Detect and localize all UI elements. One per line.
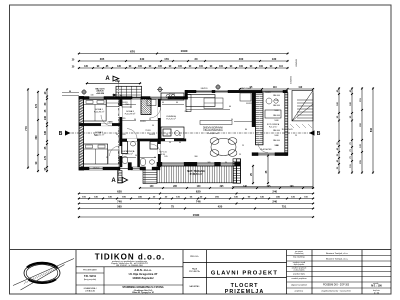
side yard boundary: [312, 93, 314, 189]
svg-text:10290 Zaprešić: 10290 Zaprešić: [132, 276, 154, 280]
side steps up to terrace (west): [143, 170, 157, 184]
logo thick bottom arc: [29, 279, 57, 283]
vertical dimension chain: [252, 165, 254, 185]
svg-text:50/80: 50/80: [274, 100, 278, 102]
svg-text:420: 420: [218, 205, 223, 209]
svg-text:90: 90: [231, 119, 233, 121]
svg-text:240: 240: [115, 79, 120, 83]
vertical dimension chain: [338, 87, 340, 173]
svg-text:25: 25: [295, 135, 297, 137]
svg-text:LOKACIJA:: LOKACIJA:: [85, 289, 96, 292]
middle column rows: [183, 262, 287, 264]
logo thick top arc: [27, 263, 58, 268]
svg-text:75: 75: [171, 205, 174, 209]
title block top line: [10, 249, 391, 251]
svg-text:dijela projekta: dijela projekta: [294, 263, 304, 266]
vertical dimension chain: [361, 87, 363, 173]
svg-text:20: 20: [195, 57, 198, 61]
svg-text:90/205: 90/205: [149, 134, 155, 136]
short interior dim segments: [122, 105, 252, 158]
door gap: [120, 106, 123, 117]
interior wall: bedrooms | hall: [120, 99, 123, 167]
svg-text:P=7,25 m²: P=7,25 m²: [166, 118, 176, 121]
wall living/utility: [252, 93, 255, 127]
svg-text:Ulica M. Tympy br. VI: Ulica M. Tympy br. VI: [132, 292, 154, 294]
svg-text:170: 170: [44, 155, 47, 160]
svg-text:P=28,50 m²: P=28,50 m²: [190, 172, 203, 176]
svg-text:290: 290: [107, 121, 110, 123]
bath fixtures left: [122, 142, 136, 164]
svg-text:90: 90: [169, 142, 171, 144]
svg-text:620: 620: [196, 190, 201, 194]
svg-text:20: 20: [69, 91, 71, 93]
column mark: [215, 84, 221, 90]
entrance arrow: [113, 94, 117, 97]
svg-text:670: 670: [130, 49, 135, 53]
vertical dimension chain: [267, 154, 269, 184]
svg-text:50/80: 50/80: [274, 120, 278, 122]
svg-text:751: 751: [282, 205, 287, 209]
svg-text:PRIZEMLJA: PRIZEMLJA: [225, 289, 265, 295]
svg-text:80/205: 80/205: [140, 121, 146, 123]
left exterior wall (hatched): [79, 97, 84, 171]
kitchen south wall: [158, 139, 186, 141]
svg-text:P=5,12 m²: P=5,12 m²: [269, 125, 278, 128]
svg-text:P=11,96 m²: P=11,96 m²: [94, 111, 105, 114]
svg-text:40: 40: [112, 95, 114, 97]
bottom wall stub at bath: [152, 167, 160, 170]
vertical dimension chain: [24, 88, 29, 169]
dimension chain: [78, 60, 289, 62]
stair walk line: [258, 96, 260, 140]
svg-text:(broj projekta): (broj projekta): [84, 278, 97, 281]
svg-text:60: 60: [162, 102, 164, 104]
svg-text:4 / 44: 4 / 44: [374, 292, 380, 294]
svg-text:55: 55: [106, 157, 108, 159]
svg-text:205: 205: [123, 118, 126, 120]
terrace hatch: [157, 166, 237, 183]
svg-text:190/210: 190/210: [291, 75, 293, 83]
bottom exterior wall left block: [79, 167, 120, 170]
utility room boiler circles: [265, 98, 281, 118]
window in wall: [132, 97, 141, 100]
svg-text:80: 80: [245, 129, 247, 131]
window in wall: [89, 167, 103, 170]
coffee table: [204, 98, 223, 109]
svg-text:PROJEKTANT:: PROJEKTANT:: [83, 269, 97, 272]
bed bedroom1: [84, 100, 107, 122]
svg-text:746: 746: [196, 200, 201, 204]
svg-text:25: 25: [242, 145, 244, 147]
bottom wall pier right: [141, 167, 146, 170]
dimension chain: [78, 205, 314, 210]
svg-text:240/120: 240/120: [201, 88, 208, 90]
bottom wall window segment 2: [132, 167, 146, 170]
dimension chain: [78, 200, 314, 205]
svg-text:PROJEKTA:: PROJEKTA:: [189, 270, 200, 273]
svg-text:840: 840: [370, 127, 373, 132]
door pier at entrance: [128, 163, 132, 171]
south wall band with pillars: [157, 162, 240, 166]
door swing arcs: [101, 107, 161, 156]
svg-text:suradnik, projektirao: suradnik, projektirao: [291, 277, 306, 280]
svg-text:SOBA 1: SOBA 1: [95, 108, 104, 111]
window in wall: [196, 90, 212, 93]
dimension chain: [86, 82, 141, 84]
svg-text:30: 30: [116, 134, 118, 136]
svg-text:15: 15: [130, 107, 132, 109]
interior wall hall | bath: [120, 139, 161, 141]
terrace garden steps: [233, 159, 241, 183]
dining table: [210, 138, 237, 157]
dimension chain: [78, 213, 314, 218]
svg-text:90: 90: [135, 155, 137, 157]
svg-text:60: 60: [176, 102, 178, 104]
bed bedroom2: [84, 144, 108, 164]
svg-text:105: 105: [164, 156, 167, 158]
narrow outdoor steps at section line: [118, 171, 122, 184]
svg-text:RAD 600: RAD 600: [273, 129, 280, 132]
svg-text:360: 360: [35, 135, 38, 140]
sideboard: [200, 121, 232, 125]
svg-text:130: 130: [91, 95, 94, 97]
vertical dimension chain: [372, 87, 374, 173]
right exterior wall (hatched ladder): [285, 93, 288, 156]
svg-text:RAD 600: RAD 600: [273, 114, 280, 117]
svg-text:620: 620: [117, 190, 122, 194]
logo hatch band between diagonals: [24, 267, 57, 284]
bath divider wall: [138, 141, 140, 167]
svg-text:KUHINJA: KUHINJA: [166, 115, 176, 118]
svg-text:DNEVNI BORAVAK: DNEVNI BORAVAK: [203, 127, 224, 130]
svg-text:RAD 600: RAD 600: [273, 139, 280, 142]
svg-text:565: 565: [117, 205, 122, 209]
company logo ellipse: [24, 263, 60, 283]
svg-text:60: 60: [229, 106, 231, 108]
svg-text:1090: 1090: [181, 49, 188, 53]
svg-text:50/80: 50/80: [274, 135, 278, 137]
dimension chain: [78, 67, 289, 69]
dimension chain: [78, 198, 314, 200]
svg-text:KUPAONICA: KUPAONICA: [122, 150, 135, 153]
svg-text:240: 240: [272, 190, 277, 194]
svg-text:205: 205: [122, 134, 125, 136]
svg-text:Zagrebačka banka · travanj 201: Zagrebačka banka · travanj 2011: [321, 290, 351, 293]
svg-text:projektant dijela: projektant dijela: [293, 272, 305, 275]
svg-text:75/205: 75/205: [145, 130, 151, 132]
svg-text:80/205: 80/205: [246, 103, 252, 105]
canopy grid hatch: [116, 86, 142, 97]
svg-text:P=10,98 m²: P=10,98 m²: [125, 113, 136, 116]
svg-text:50/80: 50/80: [274, 110, 278, 112]
svg-text:305: 305: [100, 57, 105, 61]
svg-text:190: 190: [276, 145, 279, 147]
svg-text:110: 110: [273, 86, 278, 89]
door arc utility: [258, 143, 268, 153]
dimension chain: [139, 185, 314, 189]
south wall of utility room with terrace door: [252, 153, 288, 156]
svg-text:za dio projekta: za dio projekta: [294, 268, 305, 271]
dashed yard hatch: [290, 124, 312, 128]
svg-text:120: 120: [208, 162, 211, 164]
svg-text:75: 75: [166, 134, 168, 136]
wardrobe bedroom1: [107, 100, 120, 107]
svg-text:220/240: 220/240: [296, 58, 298, 66]
cupboard right of living: [240, 93, 251, 101]
bath fixtures right: [140, 142, 157, 166]
svg-text:60: 60: [179, 142, 181, 144]
svg-text:80: 80: [225, 162, 227, 164]
vertical dimension chain: [46, 88, 48, 172]
svg-text:130: 130: [272, 57, 277, 61]
vertical dimension chain: [351, 87, 353, 173]
window in wall: [150, 97, 168, 100]
svg-text:90/205: 90/205: [122, 102, 128, 104]
svg-text:SOBA 2: SOBA 2: [95, 131, 104, 134]
svg-text:P=4,95 m²: P=4,95 m²: [123, 153, 133, 156]
section line B-B: [66, 132, 311, 134]
logo diagonal line 2: [21, 265, 65, 291]
svg-text:M 1 : 100: M 1 : 100: [371, 285, 382, 288]
svg-text:A: A: [111, 178, 116, 184]
svg-text:360: 360: [194, 156, 197, 158]
svg-text:400: 400: [239, 57, 244, 61]
svg-text:broj ovlaštenja: broj ovlaštenja: [293, 255, 305, 258]
window in wall: [89, 97, 104, 100]
dimension chain: [239, 86, 314, 90]
window in wall: [258, 153, 275, 156]
svg-text:P=10,11 m²: P=10,11 m²: [94, 134, 105, 137]
top exterior wall (left block): [79, 97, 188, 100]
svg-text:770: 770: [24, 126, 28, 131]
svg-text:RAD 600: RAD 600: [273, 94, 280, 97]
column mark: [157, 87, 163, 93]
svg-text:Branimir Tomljak, d.i.a.: Branimir Tomljak, d.i.a.: [326, 252, 348, 255]
logo diagonal line 1: [13, 259, 74, 286]
right detail rows: [287, 255, 392, 257]
entrance door line: [120, 168, 128, 170]
section line A-A: [117, 81, 119, 183]
svg-text:240/120: 240/120: [93, 168, 100, 170]
svg-text:200: 200: [185, 111, 188, 113]
sofa: [186, 95, 215, 112]
svg-text:340: 340: [140, 57, 145, 61]
svg-text:I BLAGOVAONICA: I BLAGOVAONICA: [203, 129, 223, 132]
svg-text:90: 90: [152, 125, 154, 127]
svg-text:A: A: [105, 76, 110, 82]
wardrobe bedroom2: [108, 150, 119, 164]
svg-text:110: 110: [282, 129, 285, 131]
wall thickness ticks outside left top: [62, 92, 79, 94]
svg-text:25: 25: [239, 154, 241, 156]
vertical dimension chain: [35, 91, 39, 172]
svg-text:POSEBNI DIO - ZOP 305: POSEBNI DIO - ZOP 305: [323, 285, 350, 287]
svg-text:odgovorni projektant: odgovorni projektant: [291, 283, 308, 286]
svg-text:179: 179: [164, 57, 169, 61]
top exterior wall (right block): [185, 90, 288, 93]
hall closet: [122, 100, 131, 108]
title block vertical dividers: [75, 250, 77, 294]
svg-text:1590: 1590: [193, 213, 200, 217]
kitchen counter top: [161, 93, 184, 139]
svg-text:P=28,45 m²: P=28,45 m²: [208, 132, 219, 135]
hall furniture small: [147, 100, 156, 106]
column mark: [81, 89, 87, 95]
interior wall between bedrooms: [79, 123, 122, 126]
exterior entrance stair: [292, 91, 313, 121]
window in wall: [133, 167, 141, 170]
window in wall: [262, 90, 283, 93]
svg-text:740: 740: [117, 200, 122, 204]
svg-text:Branimir Tomljak, d.i.a.: Branimir Tomljak, d.i.a.: [326, 257, 348, 260]
svg-text:IZLAZ NA TER.: IZLAZ NA TER.: [260, 148, 272, 151]
svg-text:370: 370: [35, 103, 38, 108]
dimension chain: [78, 190, 314, 195]
svg-text:345: 345: [44, 130, 47, 135]
jog wall connecting blocks: [185, 90, 188, 99]
svg-text:B: B: [59, 131, 63, 137]
svg-text:240: 240: [272, 200, 277, 204]
svg-text:GRAĐEVINA I: GRAĐEVINA I: [84, 287, 97, 290]
svg-text:PRILOG:: PRILOG:: [190, 256, 199, 258]
svg-text:+240 SM: +240 SM: [96, 92, 104, 95]
svg-text:članka broj: članka broj: [295, 253, 304, 255]
svg-text:T.D. 52/11: T.D. 52/11: [84, 274, 97, 278]
svg-text:110: 110: [298, 86, 303, 89]
interior wall: hall | living: [158, 99, 161, 167]
svg-text:STAMBENA GRAĐEVINA S 2 STANA: STAMBENA GRAĐEVINA S 2 STANA: [122, 286, 163, 289]
svg-text:GLAVNI PROJEKT: GLAVNI PROJEKT: [211, 271, 278, 277]
svg-text:RAD 600: RAD 600: [273, 104, 280, 107]
dimension chain: [78, 53, 289, 55]
svg-text:240: 240: [44, 115, 47, 120]
window in wall: [215, 90, 228, 93]
svg-text:B: B: [317, 131, 321, 137]
svg-text:25x25: 25x25: [287, 129, 292, 131]
svg-text:projektirao: projektirao: [295, 290, 303, 293]
staircase ladder strip: [256, 93, 264, 145]
svg-text:SADRŽAJ:: SADRŽAJ:: [189, 285, 200, 288]
svg-text:SOBA 3: SOBA 3: [126, 110, 135, 113]
svg-text:90/205: 90/205: [265, 92, 271, 94]
svg-text:90: 90: [179, 135, 181, 137]
